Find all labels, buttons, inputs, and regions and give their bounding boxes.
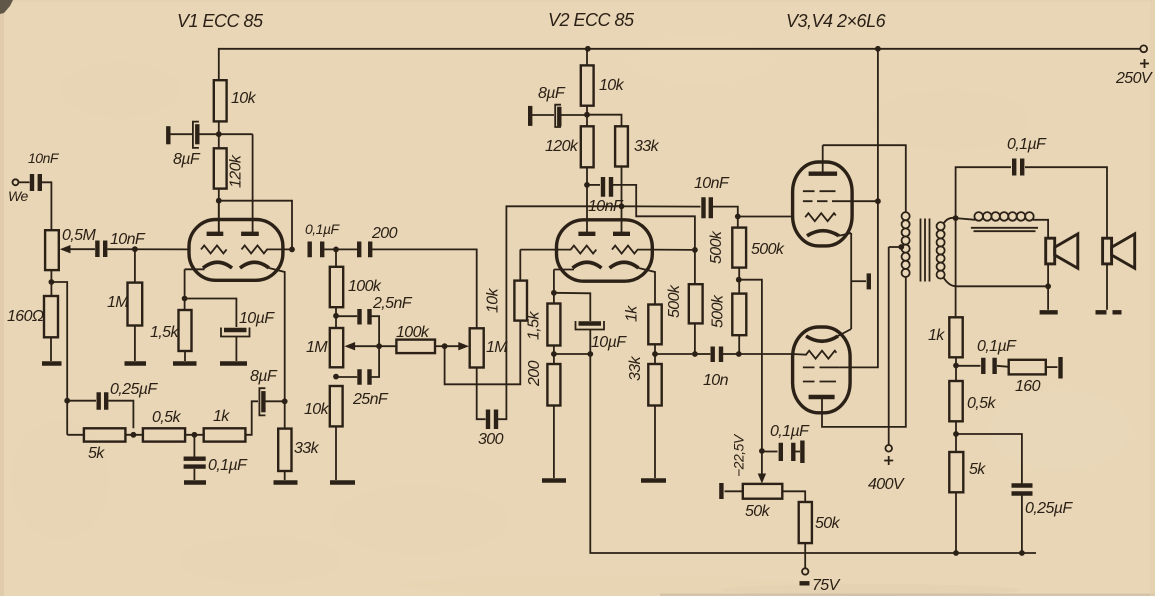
node 5k/0,5k junction	[131, 432, 137, 438]
resistor 5k feedback	[949, 452, 986, 553]
resistor 500k upper grid leak	[708, 228, 785, 294]
resistor 33k V2	[615, 126, 659, 233]
svg-text:1M: 1M	[306, 339, 328, 356]
node primary centre tap	[898, 244, 904, 250]
node 10uF bottom / feedback bus	[587, 351, 593, 357]
terminal +400V	[868, 247, 905, 493]
capacitor 10nF interstage	[587, 177, 695, 250]
resistor 100k series	[396, 324, 445, 353]
svg-text:0,1µF: 0,1µF	[1007, 136, 1047, 153]
capacitor 10n	[695, 347, 739, 390]
capacitor 8uF feedback	[245, 368, 284, 435]
svg-text:5k: 5k	[88, 445, 105, 462]
anode plate V1 right	[241, 134, 259, 234]
capacitor 200 coupling	[359, 225, 477, 328]
transformer primary winding	[902, 212, 910, 283]
tube V3 6L6 envelope (upper)	[793, 162, 853, 246]
grid V2 left (zigzag)	[557, 246, 597, 254]
ground under speaker 1	[1040, 310, 1058, 314]
svg-text:50k: 50k	[745, 503, 771, 520]
chassis bar cathode	[851, 273, 869, 289]
anode plate V2 left	[578, 232, 595, 236]
wire node down to 10k grid resistor	[445, 321, 521, 385]
speaker 1	[1046, 234, 1078, 310]
node 10k/120k/33k V2	[584, 112, 590, 118]
svg-text:1k: 1k	[624, 305, 641, 322]
node 0,25uF to bus	[1019, 550, 1025, 556]
resistor 33k V1	[278, 429, 319, 480]
svg-text:500k: 500k	[751, 241, 785, 258]
svg-text:50k: 50k	[815, 515, 841, 532]
wire feedback bus down	[590, 354, 1036, 553]
node 0,5k/5k junction	[953, 431, 959, 437]
resistor 500k lower grid leak	[710, 294, 747, 354]
svg-text:100k: 100k	[396, 324, 430, 341]
node rail / screen feed	[875, 46, 881, 52]
svg-text:0,25µF: 0,25µF	[110, 381, 158, 398]
inductor speaker filter coil	[956, 212, 1049, 238]
svg-text:8µF: 8µF	[538, 85, 566, 102]
ground under 10uF	[220, 361, 247, 365]
svg-text:0,5k: 0,5k	[152, 409, 181, 426]
svg-text:0,5M: 0,5M	[62, 227, 96, 244]
node 0,25uF branch	[64, 398, 70, 404]
svg-text:300: 300	[478, 431, 504, 448]
grid V2 right (zigzag)	[612, 246, 692, 254]
svg-text:1,5k: 1,5k	[526, 311, 543, 340]
svg-text:10nF: 10nF	[110, 231, 146, 248]
terminal We input	[8, 179, 28, 204]
wire V2 grid line	[520, 249, 556, 251]
capacitor 0,1uF feedback	[956, 338, 1017, 374]
svg-text:10µF: 10µF	[591, 334, 627, 351]
svg-text:160Ω: 160Ω	[7, 308, 44, 325]
capacitor 2,5nF	[336, 295, 413, 346]
inductor core lines	[971, 228, 1038, 231]
ground dashed under speaker 2	[1096, 310, 1122, 314]
wire pot bottom to 160 ohm	[50, 270, 52, 296]
resistor 0,5k	[125, 409, 203, 442]
wire arrow onto 50k pot	[761, 451, 763, 475]
svg-text:200: 200	[371, 225, 398, 242]
node speaker 1 return	[1045, 283, 1051, 289]
wire to lower 6L6 grid	[739, 353, 793, 355]
capacitor 0,1uF coupling	[305, 221, 357, 257]
svg-text:250V: 250V	[1115, 70, 1153, 87]
node V1 output	[289, 247, 295, 253]
node 1k/0,5k junction	[953, 363, 959, 369]
wire HT rail 250V	[219, 49, 1140, 80]
resistor 1M grid leak	[107, 249, 142, 361]
ground under 10k	[330, 480, 355, 484]
tube V1 ECC85 envelope	[189, 220, 283, 281]
tube V2 ECC85 envelope	[557, 220, 653, 281]
grid V4 (zigzag)	[793, 351, 837, 359]
wire J1 to bias line	[739, 280, 762, 451]
svg-text:8µF: 8µF	[250, 368, 278, 385]
ground under 1M	[125, 361, 147, 365]
terminal -75V	[800, 568, 841, 594]
svg-text:2,5nF: 2,5nF	[372, 295, 413, 312]
resistor 100k treble	[330, 249, 382, 328]
svg-text:8µF: 8µF	[173, 151, 201, 168]
wire junction to splitter	[655, 353, 692, 355]
wire node to 10uF	[554, 353, 590, 355]
wire node to feedback chain	[51, 282, 67, 435]
node 0,5k/1k junction	[192, 432, 198, 438]
node 100k / wiper feed	[442, 343, 448, 349]
svg-text:V3,V4 2×6L6: V3,V4 2×6L6	[786, 11, 887, 31]
cathode V2 right (arc)	[610, 262, 656, 304]
svg-text:10k: 10k	[304, 401, 330, 418]
wire V4 anode to primary bottom	[822, 282, 906, 427]
ground under 160 Ohm	[42, 361, 62, 365]
svg-text:10nF: 10nF	[588, 198, 624, 215]
wire 120k bottom to output node	[219, 201, 292, 250]
node wiper / caps	[376, 343, 382, 349]
node V2 left cathode	[551, 290, 557, 296]
potentiometer 0,5M	[45, 227, 96, 270]
tube V4 6L6 envelope (lower)	[793, 327, 851, 413]
capacitor 10nF to output grids	[622, 175, 738, 228]
svg-text:0,5k: 0,5k	[967, 395, 996, 412]
svg-text:0,1µF: 0,1µF	[305, 221, 341, 237]
svg-text:V1 ECC 85: V1 ECC 85	[177, 11, 264, 31]
node grid / 1M	[132, 246, 138, 252]
speaker 2	[1103, 234, 1135, 310]
node V1 cathode / 1,5k	[182, 296, 188, 302]
svg-text:10nF: 10nF	[694, 175, 730, 192]
svg-text:V2 ECC 85: V2 ECC 85	[548, 10, 635, 30]
svg-text:−22,5V: −22,5V	[731, 433, 747, 477]
resistor 1k feedback	[928, 317, 963, 381]
node 10k/120k/8uF	[216, 131, 222, 137]
node screen / HT	[875, 198, 881, 204]
svg-text:10nF: 10nF	[28, 150, 60, 166]
screen grid V3 (dashed)	[803, 191, 878, 201]
svg-text:120k: 120k	[545, 138, 579, 155]
svg-text:5k: 5k	[969, 461, 986, 478]
svg-text:500k: 500k	[708, 230, 725, 264]
node 10nF / upper grid	[735, 214, 741, 220]
svg-text:200: 200	[526, 360, 543, 387]
grid V1 left (zigzag)	[201, 245, 227, 253]
capacitor 10nF to grid	[97, 231, 189, 257]
anode plate V4	[809, 397, 835, 413]
cathode V1 right (arc)	[240, 262, 285, 428]
wire cathodes to chassis bar	[850, 233, 852, 329]
capacitor 8uF V2 decoupling with chassis bar	[530, 85, 587, 127]
svg-text:500k: 500k	[666, 284, 683, 318]
node 5k to bus	[953, 550, 959, 556]
potentiometer 50k bias	[721, 483, 805, 520]
wire secondary bottom line	[957, 285, 1049, 287]
potentiometer 1M tone	[306, 328, 396, 367]
svg-text:10k: 10k	[231, 90, 257, 107]
wire to upper 6L6 grid	[738, 216, 793, 218]
svg-text:33k: 33k	[634, 138, 660, 155]
ground under 1,5k	[173, 361, 197, 365]
svg-text:1M: 1M	[486, 339, 508, 356]
wire centre tap to 400V	[889, 246, 902, 248]
node 500k / lower grid	[736, 351, 742, 357]
resistor 120k	[214, 148, 245, 233]
node bias -22,5V	[759, 448, 765, 454]
resistor 120k V2	[545, 126, 594, 233]
svg-text:10n: 10n	[703, 372, 729, 389]
transformer secondary winding	[937, 218, 957, 286]
resistor 10k V1 anode load	[214, 80, 257, 148]
resistor 160 with chassis bar	[1009, 357, 1061, 395]
wire screen supply line	[840, 49, 878, 368]
cathode V3 (arc)	[807, 231, 851, 236]
node 500k bottom / 10n	[692, 351, 698, 357]
ground under 0,1uF	[184, 480, 206, 484]
screen grid V4 (dashed)	[803, 367, 840, 381]
svg-text:400V: 400V	[868, 476, 905, 493]
svg-text:We: We	[8, 188, 28, 204]
wire node A to right anode	[219, 133, 253, 135]
svg-text:160: 160	[1015, 378, 1041, 395]
ground under 33k V1	[274, 480, 298, 484]
svg-text:0,1µF: 0,1µF	[770, 423, 810, 440]
svg-text:100k: 100k	[348, 278, 382, 295]
svg-text:0,25µF: 0,25µF	[1025, 500, 1073, 517]
svg-text:1k: 1k	[928, 327, 945, 344]
capacitor 0,25uF across 5k	[67, 381, 158, 428]
potentiometer 1M volume	[470, 328, 509, 367]
svg-text:120k: 120k	[228, 154, 245, 188]
capacitor 8uF decoupling with chassis bar	[168, 122, 219, 168]
node 33k bottom / V2 right anode	[619, 203, 625, 209]
anode plate V2 right	[613, 232, 630, 236]
capacitor 300	[477, 206, 619, 448]
resistor 1k V2 cathode	[624, 305, 662, 365]
svg-text:1k: 1k	[213, 408, 230, 425]
wire junction to 0,25uF	[956, 434, 1022, 484]
resistor 160 Ohm	[7, 296, 58, 361]
capacitor 0,1uF bias with chassis bar	[762, 423, 810, 463]
svg-text:0,1µF: 0,1µF	[977, 338, 1017, 355]
node 120k bottom	[216, 198, 222, 204]
grid V3 (zigzag)	[805, 213, 836, 221]
node pot bottom / 25nF	[333, 374, 339, 380]
node 100k bottom / 2,5nF	[333, 313, 339, 319]
svg-text:75V: 75V	[812, 577, 841, 594]
node secondary top	[953, 215, 959, 221]
node 120k bottom / V2 left anode	[584, 182, 590, 188]
svg-text:25nF: 25nF	[352, 391, 389, 408]
svg-text:33k: 33k	[294, 440, 320, 457]
resistor 5k feedback	[67, 428, 125, 462]
resistor 50k bias	[799, 502, 841, 568]
resistor 10k V2 anode load	[581, 49, 625, 127]
anode plate V1 left	[207, 201, 224, 234]
resistor 0,5k feedback	[949, 381, 996, 452]
wire node to 33k V2	[587, 115, 622, 127]
svg-text:500k: 500k	[710, 294, 727, 328]
terminal 250V	[1115, 45, 1153, 87]
cathode V2 left (arc)	[554, 262, 602, 303]
wire V3 anode to primary top	[823, 145, 906, 211]
capacitor 10uF V2 bypass	[554, 293, 627, 354]
node 100k top	[333, 247, 339, 253]
wire arrow into 1M volume	[445, 342, 469, 350]
ground under 33k V2	[641, 478, 666, 482]
capacitor 10uF V1 cathode bypass	[185, 299, 276, 362]
grid V1 right (zigzag)	[242, 245, 293, 253]
resistor 33k V2 cathode	[627, 355, 662, 478]
svg-text:0,1µF: 0,1µF	[208, 457, 248, 474]
node bias divider J1	[736, 277, 742, 283]
svg-text:33k: 33k	[627, 355, 644, 381]
svg-text:1M: 1M	[107, 294, 129, 311]
node rail / V2 feed	[585, 46, 591, 52]
svg-text:10k: 10k	[485, 287, 502, 313]
resistor 1k	[204, 408, 246, 442]
capacitor 0,1uF to ground	[184, 435, 248, 480]
SECTION:artifacts	[0, 0, 4, 596]
capacitor 0,25uF feedback	[1012, 486, 1074, 554]
node 8uF/33k	[282, 398, 288, 404]
wire secondary to feedback divider	[955, 218, 957, 317]
svg-text:1,5k: 1,5k	[150, 324, 179, 341]
svg-text:10k: 10k	[599, 77, 625, 94]
resistor 1,5k V1 cathode	[150, 310, 192, 361]
cathode V4 (arc)	[806, 329, 851, 341]
node pot bottom	[49, 279, 55, 285]
cathode V1 left (arc)	[185, 262, 232, 310]
capacitor 25nF	[336, 346, 389, 408]
anode plate V3	[809, 145, 838, 174]
svg-text:10µF: 10µF	[239, 310, 275, 327]
transformer core	[921, 219, 930, 282]
resistor 10k V2 grid stopper	[485, 250, 528, 321]
node 1k/33k junction	[652, 351, 658, 357]
capacitor 10nF input	[19, 150, 60, 230]
node V2 output / 500k	[692, 247, 698, 253]
node 1,5k/200/feedback	[551, 351, 557, 357]
capacitor 0,1uF across output	[956, 136, 1107, 238]
resistor 500k splitter	[666, 250, 703, 354]
resistor 200 V2 cathode	[526, 360, 560, 478]
resistor 10k below tone pot	[304, 386, 343, 480]
resistor 1,5k V2 cathode	[526, 304, 561, 365]
ground under 200	[542, 478, 566, 482]
